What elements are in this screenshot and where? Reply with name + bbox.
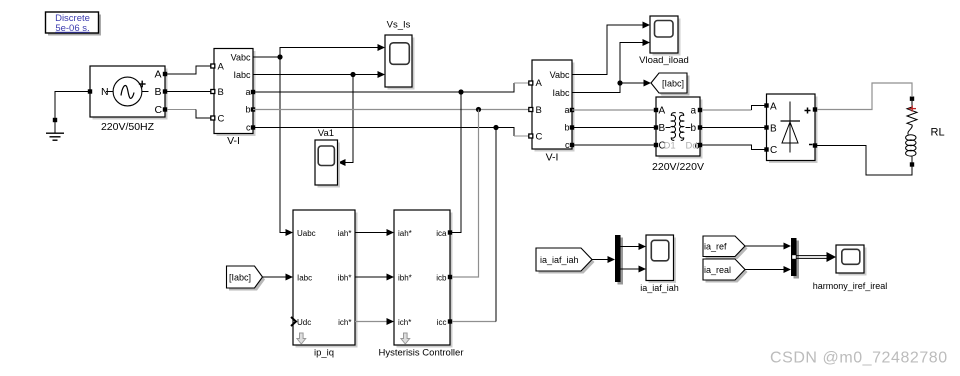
svg-text:Iabc: Iabc [233,70,251,80]
svg-text:ibh*: ibh* [338,274,352,283]
wire V-I2 a to transformer A [572,109,654,111]
wire icb up to phase b [452,110,479,278]
svg-text:B: B [536,105,542,116]
svg-text:c: c [246,123,251,133]
svg-text:Uabc: Uabc [297,229,316,238]
wire transformer b to rectifier B [702,127,765,129]
svg-text:ia_real: ia_real [704,265,731,275]
svg-text:b: b [245,105,250,115]
wire source B to V-I1 B [167,91,212,93]
scope Vload_iload [639,16,689,66]
svg-text:V-I: V-I [227,135,240,147]
svg-text:ich*: ich* [398,318,411,327]
goto tag [Iabc] [651,73,690,96]
wire rectifier + to RL top [817,83,912,110]
svg-text:A: A [536,78,543,89]
powergui block Discrete 5e-06 s. [46,12,102,36]
wire icc up to phase c [452,128,496,322]
wire transformer a to rectifier A [702,106,765,111]
svg-text:b: b [690,123,696,134]
from tag ia_ref [703,236,748,259]
svg-text:D1: D1 [664,141,676,152]
mux [791,238,799,279]
wire V-I2 b to transformer B [572,127,654,129]
svg-text:a: a [690,106,696,117]
wire V-I2 Iabc to Vload_iload in2 and branch to Goto Iabc [572,39,651,93]
svg-text:5e-06 s.: 5e-06 s. [55,23,89,34]
svg-text:220V/50HZ: 220V/50HZ [101,121,155,133]
from tag ia_real [703,259,748,283]
wire V-I1 b to V-I2 B [253,107,530,112]
svg-text:ich*: ich* [338,318,351,327]
svg-text:A: A [770,102,777,113]
svg-text:B: B [770,124,777,135]
svg-text:B: B [155,86,162,98]
svg-text:c: c [565,140,570,150]
svg-text:ia_iaf_iah: ia_iaf_iah [540,255,579,265]
wire V-I1 c to V-I2 C [253,125,529,136]
svg-text:icb: icb [436,274,447,283]
svg-text:a: a [564,105,569,115]
scope ia_iaf_iah [640,235,679,293]
wire rectifier - to RL bottom [817,146,912,176]
RL load branch [906,97,945,167]
wire mux to harmony scope (vector double line) [797,252,837,262]
svg-text:ip_iq: ip_iq [314,348,334,359]
svg-text:Iabc: Iabc [297,274,312,283]
svg-text:Hysterisis Controller: Hysterisis Controller [379,348,464,359]
svg-text:ibh*: ibh* [398,274,412,283]
svg-text:B: B [218,87,224,98]
wire V-I1 Vabc to Vs_Is in1 and down to ip_iq Uabc [253,44,385,236]
svg-text:ia_iaf_iah: ia_iaf_iah [640,283,679,293]
svg-text:iah*: iah* [398,229,412,238]
wire source C to V-I1 C [167,110,212,119]
ip_iq block [291,210,358,359]
wire source A to V-I1 A [167,66,212,74]
transformer 220V/220V [652,97,704,173]
wire ica up to phase a [452,92,461,233]
wires demux to scope ia_iaf_iah [621,243,647,273]
wire from tag to demux [592,256,615,263]
wire V-I1 Iabc to Vs_Is in2 and branch down to Va1 [253,71,385,166]
svg-text:a: a [245,87,250,97]
svg-text:ia_ref: ia_ref [704,242,727,252]
svg-text:A: A [155,69,162,81]
wire V-I1 a to V-I2 A [253,83,529,95]
svg-text:Udc: Udc [297,318,311,327]
svg-text:Vload_iload: Vload_iload [639,55,689,66]
svg-text:RL: RL [931,127,945,139]
rectifier (universal bridge) [764,94,817,163]
V-I measurement block 1 [211,49,256,148]
wire ia_real to mux [745,266,791,273]
V-I measurement block 2 [529,60,575,164]
svg-text:[Iabc]: [Iabc] [229,273,251,283]
wires ip_iq outputs to hysteresis inputs [355,229,394,325]
from tag ia_iaf_iah [536,248,595,274]
svg-text:iah*: iah* [338,229,352,238]
scope Va1 (flipped, input on right) [315,128,340,188]
svg-text:ica: ica [436,229,447,238]
svg-text:CSDN @m0_72482780: CSDN @m0_72482780 [770,350,948,367]
watermark [770,350,948,367]
svg-text:[Iabc]: [Iabc] [662,79,684,89]
svg-text:C: C [536,132,543,143]
demux [615,235,623,285]
wire ground to source N [55,92,88,121]
svg-text:Vabc: Vabc [550,70,570,80]
svg-text:Vs_Is: Vs_Is [387,20,411,31]
svg-text:Va1: Va1 [318,128,334,139]
svg-text:C: C [770,145,777,156]
scope harmony_iref_ireal [813,245,888,291]
from tag [Iabc] lower left [227,266,266,291]
svg-text:Dd: Dd [686,141,698,152]
svg-text:harmony_iref_ireal: harmony_iref_ireal [813,281,888,291]
svg-text:C: C [218,114,225,125]
wire ia_ref to mux [745,243,791,250]
svg-text:A: A [659,106,666,117]
wire V-I2 c to transformer C [572,144,654,146]
svg-text:V-I: V-I [546,152,559,164]
svg-text:icc: icc [437,318,447,327]
ground [46,118,64,140]
svg-text:Vabc: Vabc [231,53,251,63]
svg-text:Iabc: Iabc [552,88,570,98]
svg-text:A: A [218,62,225,73]
Hysterisis Controller block [379,210,464,359]
svg-text:220V/220V: 220V/220V [652,161,704,173]
AC voltage source 220V/50HZ [88,66,168,133]
svg-text:b: b [564,123,569,133]
scope Vs_Is [385,20,415,90]
wire transformer c to rectifier C [702,145,765,150]
wire V-I2 Vabc to Vload_iload in1 [572,22,650,75]
wire from tag to ip_iq Iabc [263,274,294,281]
svg-text:B: B [659,123,666,134]
svg-text:C: C [155,104,163,116]
